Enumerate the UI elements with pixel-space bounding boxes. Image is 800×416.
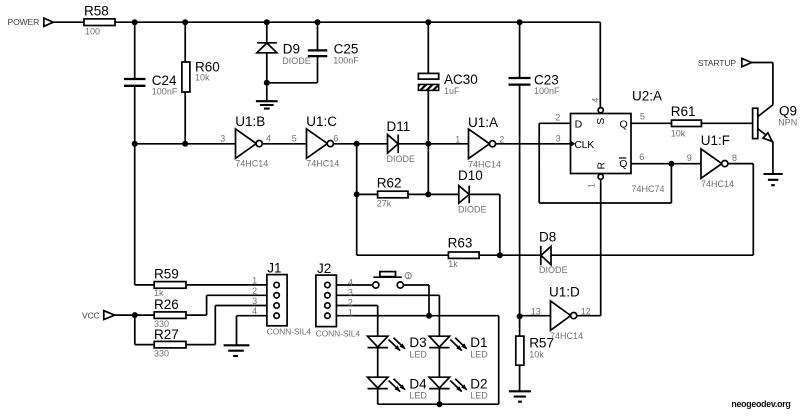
svg-text:74HC14: 74HC14 [468,160,501,170]
svg-text:1: 1 [455,135,460,145]
svg-text:6: 6 [639,152,644,162]
svg-text:D: D [575,118,583,130]
svg-text:100nF: 100nF [333,56,359,66]
svg-text:8: 8 [732,153,737,163]
svg-text:4: 4 [591,98,601,103]
svg-text:3: 3 [556,134,561,144]
svg-text:4: 4 [252,306,257,316]
svg-text:74HC74: 74HC74 [632,184,665,194]
svg-text:LED: LED [409,391,427,401]
svg-text:DIODE: DIODE [282,56,311,66]
svg-text:100: 100 [85,27,100,37]
svg-text:U2:A: U2:A [632,89,662,104]
svg-text:DIODE: DIODE [387,154,416,164]
svg-text:U1:C: U1:C [306,114,337,129]
svg-text:R62: R62 [377,176,402,191]
svg-text:D3: D3 [409,335,426,350]
svg-text:Q9: Q9 [779,103,797,118]
svg-text:R26: R26 [154,297,179,312]
svg-text:1: 1 [348,308,353,318]
svg-text:74HC14: 74HC14 [701,179,734,189]
svg-text:CONN-SIL4: CONN-SIL4 [267,327,312,337]
svg-text:AC30: AC30 [444,72,478,87]
svg-text:DIODE: DIODE [539,265,568,275]
svg-text:74HC14: 74HC14 [306,159,339,169]
svg-text:POWER: POWER [8,17,40,27]
svg-text:3: 3 [348,288,353,298]
svg-text:1: 1 [252,276,257,286]
svg-text:CONN-SIL4: CONN-SIL4 [316,329,361,339]
svg-text:10k: 10k [195,73,210,83]
svg-text:R: R [595,162,607,170]
svg-text:LED: LED [470,350,488,360]
svg-text:↕: ↕ [406,273,409,280]
svg-text:2: 2 [252,286,257,296]
svg-text:VCC: VCC [82,311,100,321]
svg-text:27k: 27k [377,199,392,209]
svg-text:U1:B: U1:B [235,114,265,129]
svg-text:U1:A: U1:A [468,115,498,130]
svg-text:100nF: 100nF [152,87,178,97]
svg-text:12: 12 [581,307,591,317]
svg-text:D9: D9 [283,42,300,57]
svg-text:2: 2 [499,135,504,145]
svg-text:STARTUP: STARTUP [698,58,737,68]
svg-text:100nF: 100nF [534,86,560,96]
svg-text:D1: D1 [470,335,487,350]
svg-text:6: 6 [333,134,338,144]
svg-text:U1:D: U1:D [549,285,580,300]
svg-text:D10: D10 [458,168,483,183]
svg-text:2: 2 [348,298,353,308]
svg-text:13: 13 [531,307,541,317]
svg-text:D2: D2 [470,377,487,392]
svg-text:C25: C25 [334,42,359,57]
svg-text:S: S [595,118,607,125]
svg-text:J2: J2 [317,261,331,276]
svg-text:5: 5 [292,134,297,144]
svg-text:74HC14: 74HC14 [550,331,583,341]
svg-text:D4: D4 [409,377,427,392]
svg-text:10k: 10k [529,350,544,360]
svg-text:Q: Q [619,158,627,170]
svg-text:R58: R58 [84,4,109,19]
svg-text:Q: Q [620,118,628,130]
svg-text:LED: LED [470,391,488,401]
svg-text:D8: D8 [539,230,556,245]
svg-text:R61: R61 [671,104,696,119]
svg-text:330: 330 [154,319,169,329]
svg-text:DIODE: DIODE [458,205,487,215]
svg-text:J1: J1 [267,261,281,276]
svg-text:1uF: 1uF [444,86,460,96]
svg-text:3: 3 [252,296,257,306]
svg-text:10k: 10k [671,129,686,139]
svg-text:1k: 1k [448,259,458,269]
svg-text:330: 330 [154,349,169,359]
svg-text:R27: R27 [154,327,179,342]
svg-text:CLK: CLK [574,139,594,151]
svg-text:LED: LED [409,350,427,360]
svg-text:4: 4 [266,134,271,144]
svg-text:2: 2 [555,113,560,123]
svg-text:neogeodev.org: neogeodev.org [731,399,790,409]
svg-text:U1:F: U1:F [701,133,730,148]
svg-text:D11: D11 [387,119,411,134]
svg-text:3: 3 [220,134,225,144]
svg-text:R59: R59 [154,267,179,282]
svg-text:R63: R63 [448,236,473,251]
svg-text:1k: 1k [154,288,164,298]
svg-text:9: 9 [687,153,692,163]
svg-text:1: 1 [586,183,596,188]
svg-text:5: 5 [640,112,645,122]
svg-text:74HC14: 74HC14 [235,159,268,169]
svg-text:NPN: NPN [778,118,797,128]
svg-text:4: 4 [348,278,353,288]
